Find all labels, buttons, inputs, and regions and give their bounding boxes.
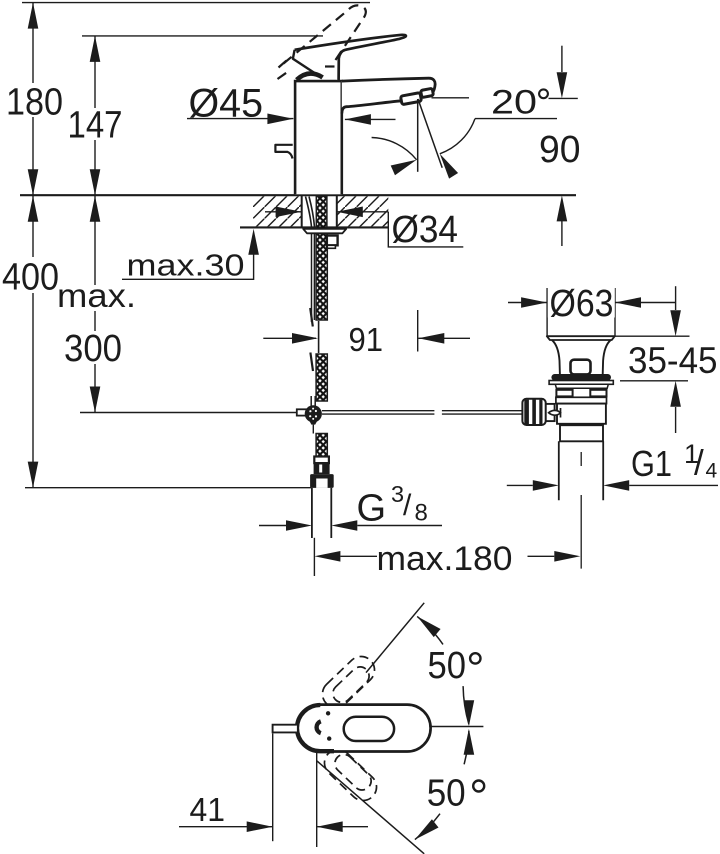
extension line at stream — [417, 310, 419, 352]
svg-text:Ø63: Ø63 — [550, 283, 614, 325]
water stream vertical line — [417, 99, 419, 172]
water stream angled line — [418, 99, 442, 168]
deck hatching left of hole — [253, 196, 302, 226]
svg-text:147: 147 — [68, 105, 123, 147]
dimension 91 left arrow — [263, 337, 316, 339]
arrow max300 bottom — [90, 387, 101, 413]
outlet level line to right — [432, 97, 470, 99]
knurled thumb nut — [522, 399, 545, 425]
top view: marker crescent — [317, 721, 321, 733]
arrow 147 bottom — [90, 169, 101, 195]
aerator on spout — [400, 88, 434, 104]
lever base left edge — [293, 50, 322, 78]
collar trapezoid — [555, 384, 608, 388]
lever pivot joint (thick arc) — [297, 73, 323, 79]
svg-text:20: 20 — [491, 83, 537, 121]
dimension 41 right arrow — [317, 826, 368, 828]
extension line 147 reference — [82, 35, 323, 37]
arrow 400 bottom — [28, 462, 39, 488]
overflow slot right — [590, 390, 606, 397]
deck hatching right of hole — [337, 196, 388, 226]
dimension 41 left arrow — [179, 826, 273, 828]
dimension max300 vertical line — [94, 196, 96, 413]
50deg upper arc piece B with arrow — [463, 686, 469, 724]
knurled ring (black) — [551, 374, 611, 381]
dimension D34 right arrow — [337, 211, 389, 213]
supply hose segment 1 — [316, 234, 327, 321]
svg-text:50: 50 — [427, 773, 466, 815]
35-45 bottom tick — [620, 380, 688, 382]
hose end collar — [314, 457, 329, 464]
ext line D63 left — [546, 288, 548, 336]
svg-text:max.: max. — [57, 277, 136, 314]
svg-text:50: 50 — [428, 645, 467, 687]
41 extension line B — [316, 753, 318, 848]
ball joint tail — [310, 421, 317, 424]
svg-text:max.180: max.180 — [377, 540, 513, 578]
body bottom step — [560, 425, 603, 441]
top view: screw dot upper — [326, 711, 330, 715]
dimension D45 left arrow line — [264, 118, 293, 120]
dimension max30 arrow — [122, 254, 254, 279]
degree ring of 20 — [539, 89, 548, 98]
dimension D45 right arrow line — [345, 118, 396, 120]
rod stub box left of ball — [297, 409, 307, 415]
top view: lever knob stadium — [344, 717, 394, 741]
leader 20deg horizontal — [475, 118, 557, 120]
faucet spout — [342, 78, 435, 113]
dimension G3/8 — [259, 525, 286, 527]
label D63 — [548, 286, 615, 318]
dimension 90 top arrow — [561, 46, 563, 72]
hose curve inside hole — [306, 197, 315, 228]
svg-text:90: 90 — [539, 129, 581, 171]
pivot cone — [549, 410, 561, 415]
top view: dashed lever rotated down, inner — [331, 751, 375, 794]
G3/8 nut — [310, 474, 334, 488]
svg-text:G: G — [357, 488, 387, 530]
horizontal pivot rod to drain — [322, 411, 522, 414]
locknut — [327, 236, 338, 246]
ball joint — [305, 405, 322, 422]
50deg lower reference line — [317, 761, 424, 854]
pull rod in break — [318, 321, 320, 353]
dimension 90 bottom arrow — [561, 221, 563, 246]
top view: dashed lever rotated up, inner — [329, 663, 373, 706]
dimension 400 vertical line — [32, 196, 34, 488]
svg-text:8: 8 — [415, 500, 428, 527]
svg-text:91: 91 — [349, 322, 384, 359]
lever raised position (dashed) — [278, 5, 366, 79]
drain flange — [547, 336, 615, 340]
deck bottom line — [240, 226, 388, 228]
pull rod above ball — [311, 396, 315, 406]
extension line top (180 reference) — [22, 2, 370, 4]
svg-text:G1: G1 — [631, 443, 672, 484]
mounting hole right wall — [336, 196, 338, 227]
50deg upper reference line — [366, 603, 424, 673]
body top section — [557, 388, 606, 397]
tee housing — [545, 404, 555, 421]
supply hose segment 3 — [316, 434, 327, 457]
svg-text:Ø34: Ø34 — [392, 209, 459, 251]
leader D45 underline — [187, 118, 264, 120]
pull rod upper — [312, 234, 315, 323]
rod below ball — [312, 425, 314, 434]
top view: dashed lever rotated down, outer — [319, 744, 382, 806]
svg-text:max.30: max.30 — [127, 248, 245, 283]
top view: screw dot lower — [327, 736, 331, 740]
svg-text:400: 400 — [2, 257, 59, 299]
pop-up rod knob behind body — [275, 145, 292, 159]
top view: dashed lever rotated up, outer — [317, 651, 380, 713]
arrow 400 top — [28, 196, 39, 222]
hose break edge top — [310, 308, 313, 327]
angular arc 20deg left piece — [372, 138, 417, 160]
50deg lower arc piece A with arrow — [464, 731, 469, 765]
arrow 180 top — [28, 3, 39, 29]
mounting hole left wall — [301, 196, 303, 227]
degree ring upper — [470, 653, 480, 663]
dimension D63 right arrow — [615, 302, 676, 304]
angular arc 20deg right piece — [440, 119, 475, 154]
35-45 top tick (flange level) — [603, 335, 690, 337]
svg-text:300: 300 — [64, 328, 122, 370]
top view: faucet body capsule — [297, 705, 431, 752]
top view: spout stub — [273, 725, 297, 733]
horizontal reference line right of capsule — [429, 726, 483, 728]
hose nipple — [314, 463, 330, 474]
lever handle — [295, 35, 406, 81]
reference line max300 bottom / pivot rod line — [80, 412, 297, 414]
dimension 147 vertical line — [94, 36, 96, 195]
overflow slot left — [556, 390, 572, 397]
locknut step — [327, 245, 336, 248]
deck top line — [20, 194, 576, 196]
svg-text:41: 41 — [190, 791, 226, 828]
arrow 180 bottom — [28, 169, 39, 195]
leader D34 — [388, 212, 463, 247]
ext line D63 right — [614, 288, 616, 336]
50deg lower arc piece B with arrow — [415, 814, 440, 840]
tailpiece pipe — [312, 488, 331, 538]
svg-text:35-45: 35-45 — [628, 340, 718, 381]
mid band — [556, 397, 607, 403]
mounting flange under deck — [303, 229, 346, 233]
threaded shank in hole — [316, 196, 327, 233]
drain lift knob — [571, 360, 591, 375]
drain tailpipe — [559, 441, 603, 500]
svg-text:/: / — [403, 489, 412, 522]
dimension G1 1/4 — [507, 484, 533, 486]
svg-text:180: 180 — [6, 82, 63, 124]
50deg upper arc piece A with arrow — [417, 616, 443, 644]
supply hose segment 2 — [316, 354, 327, 401]
degree ring lower — [473, 781, 484, 792]
dimension D34 left arrow — [265, 211, 302, 213]
arrow 147 top — [90, 36, 101, 62]
rim band — [549, 381, 613, 385]
dimension D63 left arrow — [508, 302, 547, 304]
dimension 91 right arrow — [418, 337, 470, 339]
top view: capsule left end thick arc — [297, 705, 334, 751]
faucet body — [295, 81, 342, 194]
svg-text:/: / — [694, 444, 704, 483]
reference line 400 bottom — [25, 487, 311, 489]
arrow max300 top — [90, 196, 101, 222]
dimension 180 vertical line — [32, 3, 34, 196]
35-45 vertical with arrows — [675, 286, 677, 310]
20deg tick line at outlet level — [549, 97, 578, 99]
hose break edge bottom — [310, 353, 313, 372]
svg-text:4: 4 — [706, 460, 718, 483]
dimension max180 — [313, 538, 315, 576]
drain centerline — [580, 452, 582, 569]
41 extension line A (spout tip) — [272, 734, 274, 842]
main body — [557, 404, 606, 424]
drain bell — [552, 340, 611, 374]
